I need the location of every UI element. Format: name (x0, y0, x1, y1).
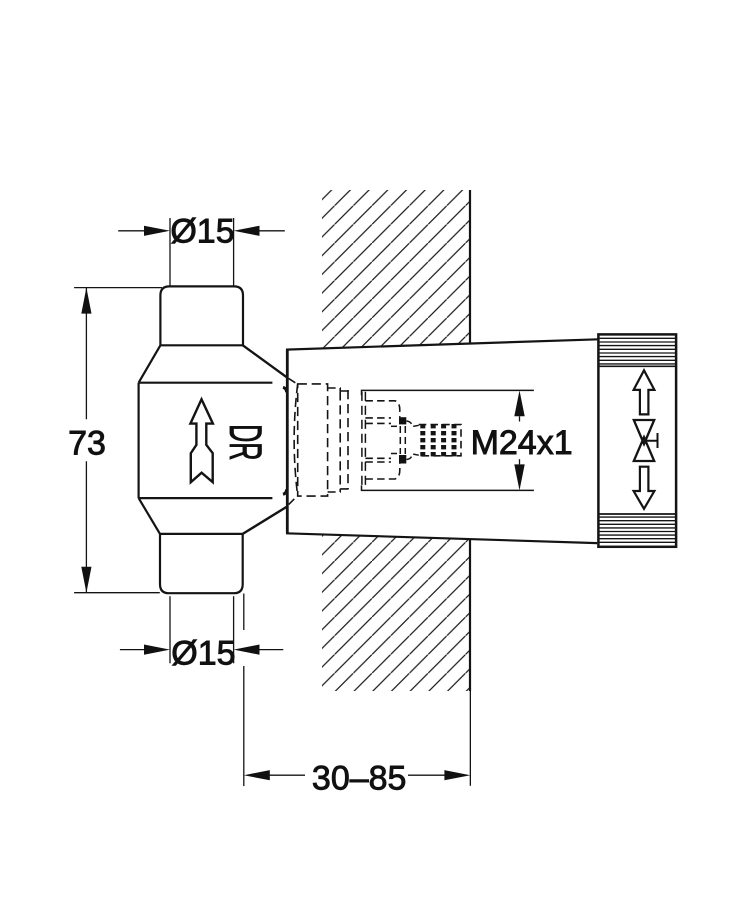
hidden step line 1 (339, 391, 341, 488)
conical housing fill (287, 339, 598, 543)
spindle lower seal square (399, 455, 406, 464)
thread runout curve upper (407, 421, 419, 427)
spindle side dash lower (391, 453, 399, 455)
dim 30-85: extension line right (469, 691, 471, 786)
hidden cone corner diagonal lower (dashed) (289, 496, 298, 505)
flow direction arrow on body (190, 399, 213, 482)
hidden nut row 2 (365, 417, 391, 419)
dim M24x1: arrow down with tail (514, 464, 524, 490)
thread crest bar 2 (431, 424, 436, 457)
svg-text:Ø15: Ø15 (171, 635, 235, 673)
valve body top inlet stub (160, 286, 243, 345)
hidden nut row bottom (365, 463, 399, 480)
thread runout curve lower (407, 454, 419, 460)
conical housing bottom edge (286, 533, 597, 543)
dim 30-85: arrow right (444, 770, 470, 780)
valve body top shoulder line (160, 344, 243, 346)
valve body mid-section left edge (138, 383, 140, 498)
threaded spigot outline (dashed) (419, 425, 461, 456)
wall hatching lower section (322, 534, 470, 691)
valve body mid-section bottom edge (139, 497, 273, 499)
dim Ø15 top: arrow left (144, 226, 170, 236)
dim 30-85: extension line left upper part (243, 594, 245, 631)
dim 30-85: extension line left lower part (243, 666, 245, 786)
dim 73: arrow up (81, 288, 91, 314)
hidden cone corner diagonal upper (dashed) (289, 378, 298, 384)
hidden bore arc (dashed) (294, 384, 298, 496)
dim Ø15 bottom: arrow right (234, 645, 260, 655)
dim Ø15 top: arrow right (234, 226, 260, 236)
dim Ø15 bottom: leader line right (259, 649, 284, 651)
dim 73: extension line top (74, 287, 162, 289)
dim Ø15 bottom: leader line left (120, 649, 145, 651)
dim Ø15 top: leader line left (118, 230, 145, 232)
cap top knurl band (599, 338, 676, 366)
dim Ø15 bottom: extension line left (169, 596, 171, 663)
valve body bottom outlet stub (160, 534, 243, 593)
conical housing top edge (286, 339, 599, 349)
valve body upper-right taper (243, 345, 288, 378)
valve body mid-section top edge (139, 382, 273, 384)
hidden nut row top (365, 401, 399, 417)
thread bore top edge with hook (362, 390, 534, 395)
conical housing left edge (286, 350, 289, 534)
cap valve symbol upper triangle (634, 420, 654, 444)
protective cap body (598, 334, 676, 546)
valve body bottom shoulder line (160, 533, 243, 535)
dim Ø15 bottom: extension line right (233, 596, 235, 663)
svg-text:73: 73 (68, 425, 106, 463)
dim 73: dimension line lower (85, 461, 87, 592)
dim 30-85: arrow left (244, 770, 270, 780)
valve body lower-right taper (243, 506, 288, 534)
thread crest bar 3 (441, 424, 446, 457)
valve body upper-left taper (139, 345, 161, 382)
cap valve symbol handle (644, 433, 658, 448)
valve body lower-left taper (139, 498, 160, 534)
thread crest bar 1 (420, 424, 425, 457)
valve body right corner sliver lower (283, 489, 287, 494)
dim Ø15 top: extension line right (233, 218, 235, 286)
dim Ø15 top: extension line left (169, 218, 171, 286)
dim 73: extension line bottom (74, 592, 160, 594)
dim Ø15 bottom: arrow left (144, 645, 170, 655)
cap bottom knurl band (599, 514, 676, 542)
wall front edge lower (469, 539, 471, 691)
wall front edge upper (469, 190, 471, 344)
hidden step connector top 2 (340, 390, 348, 391)
dim Ø15 top: leader line right (259, 230, 285, 232)
dim 30-85: dimension line left (269, 774, 305, 776)
thread crest bar 4 (452, 424, 457, 457)
svg-text:M24x1: M24x1 (471, 424, 573, 462)
hidden nut row 3 (365, 422, 391, 424)
hidden nut row 4 (365, 457, 391, 459)
dim 30-85: dimension line right (408, 774, 446, 776)
cap up arrow (634, 370, 655, 414)
spindle upper seal square (399, 417, 406, 424)
spindle stem dashed right (404, 426, 406, 454)
hidden step connector top 1 (328, 388, 341, 391)
valve body right corner sliver upper (283, 387, 287, 392)
dim 73: dimension line upper (85, 288, 87, 420)
hidden nut row 5 (365, 461, 391, 463)
hidden sleeve line pair left (361, 392, 363, 487)
svg-text:30–85: 30–85 (312, 760, 407, 798)
cap valve symbol lower triangle (634, 437, 654, 461)
svg-text:DR: DR (220, 424, 271, 460)
wall hatching upper section (322, 190, 470, 348)
spindle stem dashed left (399, 426, 401, 454)
hidden step line 2 (347, 390, 349, 490)
hidden step connector bottom 2 (340, 488, 348, 491)
spindle side dash upper (391, 425, 399, 427)
thread bore bottom edge with hook (362, 485, 534, 490)
cap down arrow (634, 467, 655, 509)
hidden sleeve line pair right (364, 392, 366, 487)
dim M24x1: arrow up with tail (514, 390, 524, 416)
svg-text:Ø15: Ø15 (170, 213, 234, 251)
hidden step connector bottom 1 (328, 489, 341, 492)
dim 73: arrow down (81, 567, 91, 593)
hidden cartridge rectangle (dashed) (298, 384, 328, 496)
